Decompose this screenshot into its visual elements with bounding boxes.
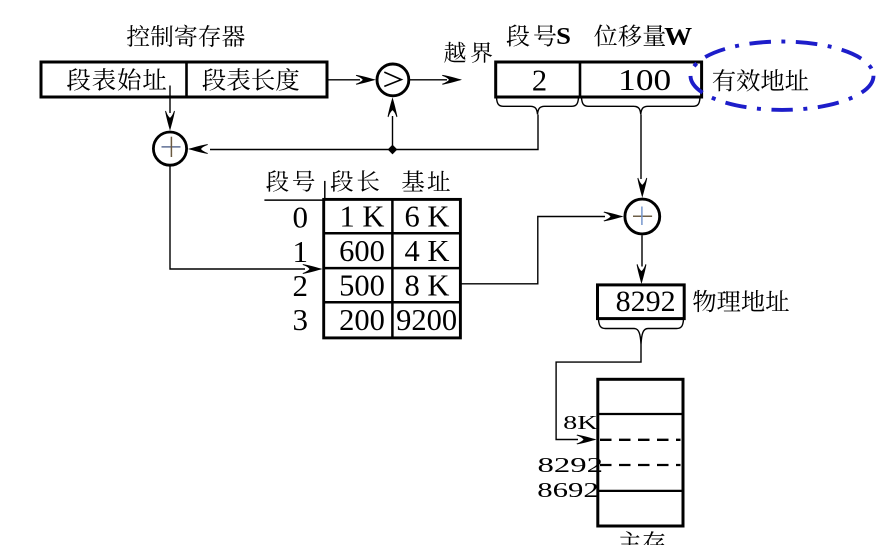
svg-text:1: 1 (293, 234, 309, 269)
wire register cell→adder1 (169, 86, 171, 114)
svg-text:8 K: 8 K (405, 269, 450, 303)
arrowhead into table (303, 264, 323, 274)
memory dashed line 2 (600, 464, 681, 466)
svg-text:200: 200 (339, 303, 385, 337)
arrowhead into comparator bottom (388, 97, 398, 117)
wire adder1→table (170, 165, 305, 269)
memory line 8K (598, 413, 683, 415)
comparator > symbol (384, 72, 401, 86)
underbrace below 8292 box (599, 320, 684, 345)
svg-text:6 K: 6 K (405, 200, 450, 234)
arrowhead into adder2 left (604, 212, 624, 222)
register box divider (185, 62, 188, 97)
arrowhead to 越界 (442, 75, 462, 85)
svg-text:500: 500 (339, 269, 385, 303)
wire comparator→越界 (409, 79, 447, 81)
table row line 1 (324, 232, 461, 235)
label 有效地址 (effective address) (713, 69, 809, 91)
header 基址 (402, 171, 450, 192)
svg-text:W: W (664, 23, 692, 50)
S/W box divider (579, 62, 582, 97)
svg-text:1 K: 1 K (340, 200, 385, 234)
header 段长 (331, 170, 379, 192)
segment table box (324, 199, 461, 338)
memory line 8692 (598, 490, 683, 492)
comparator circle (>) (377, 64, 409, 96)
label 段表长度 (segment table length) (202, 68, 299, 91)
underbrace below 2 (497, 98, 579, 115)
svg-text:100: 100 (618, 63, 671, 97)
physical address box (598, 285, 685, 319)
header tick vertical (324, 181, 326, 201)
adder2 circle (625, 199, 660, 234)
main memory box (598, 379, 683, 526)
wire 段号→adder1 (210, 115, 538, 150)
arrowhead into 8292 box (637, 264, 647, 284)
label 段号 (segment number) (507, 25, 556, 47)
svg-text:600: 600 (339, 234, 385, 268)
table row line 3 (324, 301, 461, 304)
register box 控制寄存器 (41, 62, 327, 97)
label 越界 (out of bounds) (444, 42, 492, 63)
wire 8292→memory (556, 345, 641, 440)
wire junction→comparator (392, 116, 394, 150)
wire adder2→8292 box (641, 235, 643, 266)
memory dashed line 8292 (600, 439, 681, 441)
label 位移量 (displacement) (594, 24, 665, 46)
underbrace below 100 (582, 98, 701, 115)
svg-text:2: 2 (532, 63, 547, 97)
arrowhead into memory (577, 435, 597, 445)
svg-text:S: S (556, 23, 571, 50)
adder1 plus vertical (170, 137, 172, 157)
svg-text:8692: 8692 (537, 478, 599, 502)
table row line 2 (324, 267, 461, 270)
adder2 plus horizontal (633, 215, 652, 217)
arrowhead into adder1 (right side) (188, 144, 208, 154)
svg-text:8292: 8292 (616, 285, 676, 318)
arrowhead into adder1 top (165, 111, 175, 131)
svg-text:3: 3 (293, 302, 309, 337)
wire 位移量→adder2 (640, 115, 642, 180)
wire register→comparator (327, 79, 360, 81)
label 控制寄存器 (control register title) (127, 25, 245, 47)
wire table→adder2 (460, 217, 605, 284)
blue dash-dot ellipse 有效地址 (691, 41, 874, 109)
label 主存 (main memory) (619, 531, 665, 545)
header 段号 (266, 170, 314, 192)
register box S/W (496, 62, 702, 97)
arrowhead into adder2 top (637, 178, 647, 198)
adder1 circle (153, 132, 186, 165)
svg-text:9200: 9200 (396, 303, 457, 337)
svg-text:4 K: 4 K (405, 234, 450, 268)
label 物理地址 (physical address) (693, 290, 789, 312)
adder2 plus vertical (641, 207, 643, 226)
adder1 plus horizontal (162, 146, 181, 148)
svg-text:2: 2 (293, 268, 309, 303)
header tick horizontal (264, 199, 324, 201)
junction node (388, 145, 398, 155)
svg-text:8292: 8292 (538, 453, 604, 477)
label 段表始址 (segment table base) (67, 68, 166, 91)
arrowhead into comparator (356, 75, 376, 85)
svg-text:0: 0 (293, 200, 309, 235)
svg-text:8K: 8K (563, 412, 598, 434)
table column divider (391, 199, 394, 338)
